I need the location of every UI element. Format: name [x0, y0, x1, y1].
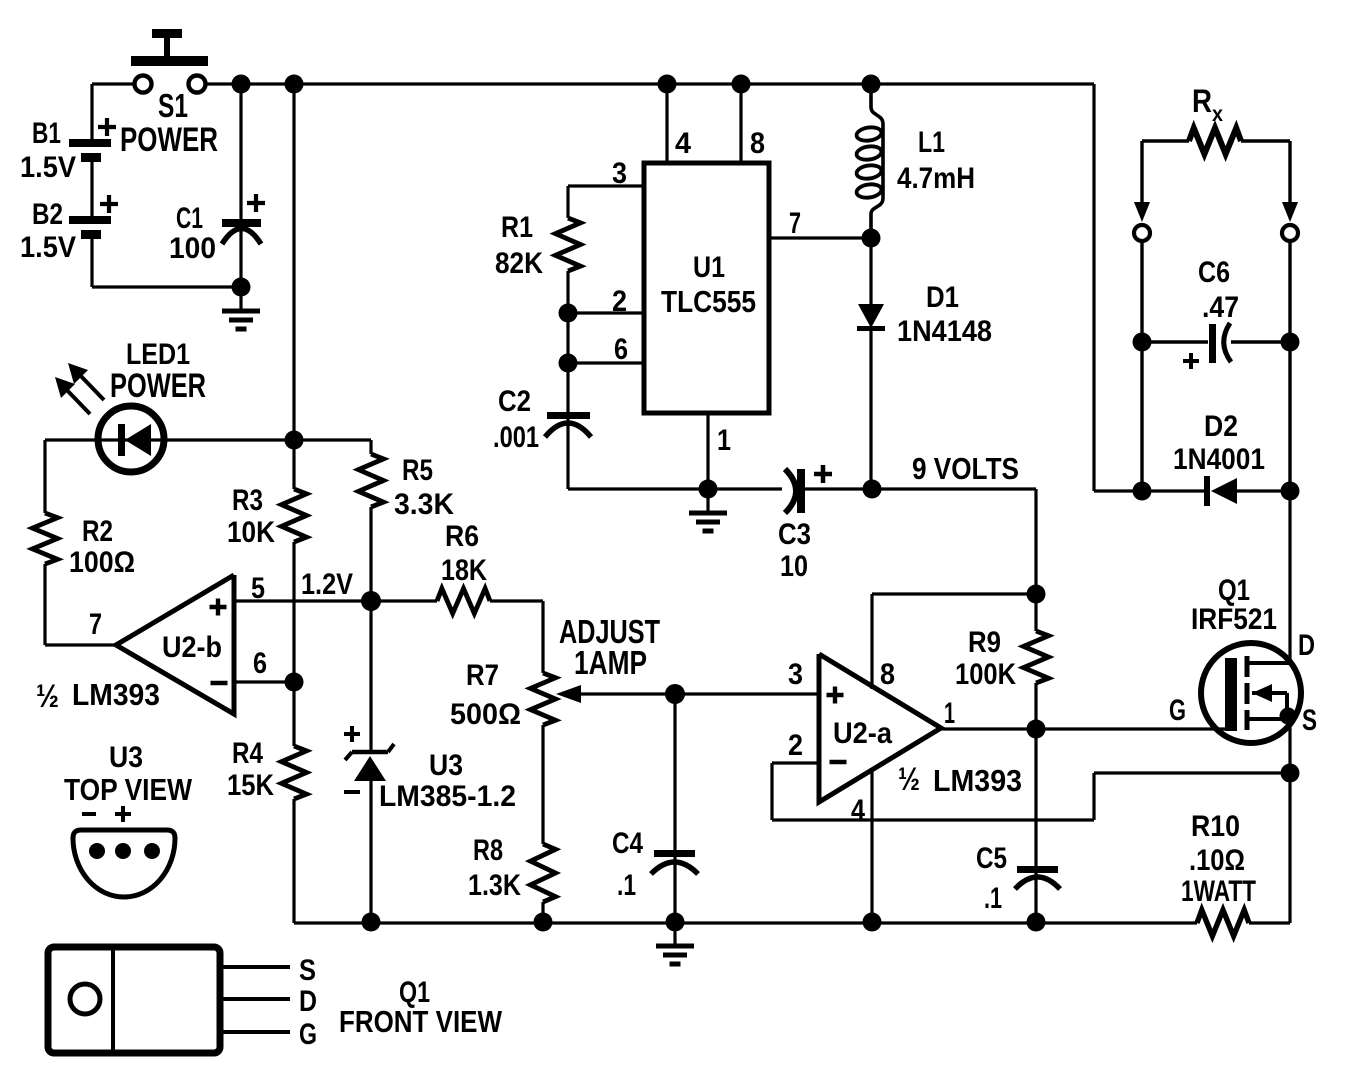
label .10ohm [1189, 844, 1245, 877]
wire pin6 node to U1 pin6 [568, 361, 644, 364]
wire R6 to R7 top corner [490, 601, 543, 673]
label 10K [227, 516, 275, 549]
wire U2-a pin2 jog to source sense [772, 763, 1290, 820]
op U1 box [644, 163, 769, 413]
svg-text:8: 8 [880, 658, 895, 691]
label U3 (top view) [109, 741, 143, 774]
wire R10 to source sense corner [1249, 773, 1290, 923]
label C6 [1198, 256, 1230, 289]
label D lead [299, 985, 317, 1018]
label .47 [1202, 291, 1239, 324]
label C5 [976, 842, 1007, 875]
label .1 (C5) [984, 882, 1002, 915]
label Q1 (front view) [399, 976, 430, 1009]
svg-text:R6: R6 [445, 520, 479, 553]
svg-text:3.3K: 3.3K [394, 488, 454, 521]
label 9 VOLTS [912, 451, 1019, 486]
wire U1 pin8 to rail [739, 84, 742, 165]
capacitor C6 [1142, 323, 1290, 369]
label ADJUST [559, 613, 660, 650]
svg-text:7: 7 [789, 207, 801, 240]
diode D2 [1142, 476, 1290, 506]
junction zener ground [362, 913, 381, 932]
terminal circle right probe [1282, 225, 1298, 241]
resistor R2 with corner [33, 440, 118, 645]
junction L1 top on rail [862, 75, 881, 94]
junction D2 left node [1133, 482, 1152, 501]
pin label 1 (U1) [717, 424, 731, 457]
ic U3 package top view [73, 830, 175, 897]
svg-text:10K: 10K [227, 516, 275, 549]
resistor R4 [282, 746, 307, 799]
wire pin6 node down to C2 and ground run [566, 363, 569, 489]
wire R3 top stub [292, 440, 295, 489]
junction rail/vertical [285, 75, 304, 94]
label .001 [493, 421, 539, 454]
svg-text:2: 2 [788, 729, 803, 762]
resistor R10 [1197, 910, 1249, 936]
svg-text:D1: D1 [926, 281, 959, 314]
ground symbol below C1 [222, 287, 260, 329]
wire left probe to C6 node [1140, 241, 1143, 491]
wire R4 bottom to ground rail [292, 799, 295, 923]
terminal circle left probe [1134, 225, 1150, 241]
junction pin8 rail [732, 75, 751, 94]
wire 1.2V node down to zener [369, 601, 372, 752]
wire battery bottom return [92, 237, 241, 287]
wire R7 bottom to R8 [541, 725, 544, 844]
svg-text:1N4001: 1N4001 [1173, 443, 1265, 476]
label POWER (LED1) [110, 367, 206, 405]
svg-text:4.7mH: 4.7mH [897, 162, 975, 195]
svg-text:S: S [299, 954, 316, 987]
label S terminal [1302, 704, 1317, 737]
junction R8 ground [534, 913, 553, 932]
label 4.7mH [897, 162, 975, 195]
wire C1 top to +3V rail [239, 84, 242, 287]
svg-text:R: R [1192, 83, 1212, 119]
svg-text:C6: C6 [1198, 256, 1230, 289]
pin label 1 (U2-a) [944, 697, 955, 730]
svg-text:TOP VIEW: TOP VIEW [64, 772, 193, 807]
svg-text:D2: D2 [1204, 410, 1238, 443]
junction pin7/L1/D1 [862, 229, 881, 248]
label C4 [612, 827, 643, 860]
label IRF521 [1191, 603, 1277, 636]
svg-text:LM393: LM393 [933, 763, 1022, 798]
junction output node [1027, 720, 1046, 739]
label half LM393 (U2-b) [36, 677, 160, 714]
label S lead [299, 954, 316, 987]
wire B1 to B2 [90, 158, 93, 218]
junction C5 ground [1027, 913, 1046, 932]
label R1 [501, 211, 533, 244]
diode D1 [857, 238, 885, 489]
svg-text:100K: 100K [955, 658, 1016, 691]
svg-text:S: S [1302, 704, 1317, 737]
wire U2-b pin5 to 1.2V node [234, 599, 371, 602]
svg-text:7: 7 [89, 608, 102, 641]
svg-text:R2: R2 [82, 515, 113, 548]
wire U1 pin7 to L1 bottom [769, 236, 871, 239]
label 1WATT [1181, 875, 1256, 908]
svg-text:LM393: LM393 [72, 677, 160, 712]
pin label 4 (U2-a) [851, 794, 865, 827]
svg-text:B1: B1 [32, 117, 61, 150]
label L1 [918, 126, 945, 159]
label plus (top view) [115, 806, 131, 822]
label 1N4001 [1173, 443, 1265, 476]
wire top +3V rail (S1 to right corner) [205, 82, 1094, 85]
potentiometer R7 [531, 673, 676, 725]
led light arrows [55, 363, 104, 414]
inductor L1 [856, 92, 883, 231]
wire wiper node down through C4 to rail [673, 694, 676, 923]
label minus (top view) [82, 812, 96, 816]
junction C4 ground [666, 913, 685, 932]
capacitor C3 [785, 465, 832, 513]
label Q1 [1218, 574, 1250, 607]
capacitor C1 [222, 194, 265, 244]
wire R3 bottom to pin6 node [292, 542, 295, 682]
label U2-a [833, 717, 892, 750]
svg-text:C4: C4 [612, 827, 643, 860]
wire pin2 node down to pin6 node [566, 313, 569, 363]
label 1.3K [468, 869, 521, 902]
svg-text:U2-b: U2-b [162, 631, 222, 664]
svg-text:D: D [299, 985, 317, 1018]
capacitor C5 [1015, 866, 1060, 889]
label R5 [402, 454, 433, 487]
pin label 6 (U1) [614, 333, 628, 366]
svg-text:LM385-1.2: LM385-1.2 [379, 780, 516, 813]
pin label 2 [612, 285, 627, 318]
pin label 3 (U2-a) [788, 658, 803, 691]
svg-text:R7: R7 [466, 659, 499, 692]
svg-text:.1: .1 [984, 882, 1002, 915]
wire 9V feed [872, 489, 1036, 594]
junction pin2 node [559, 304, 578, 323]
resistor Rx with leads [1142, 128, 1290, 154]
junction source sense node [1281, 764, 1300, 783]
wire R8 bottom to rail [541, 902, 544, 923]
label C1 [176, 202, 203, 235]
svg-text:18K: 18K [441, 554, 487, 587]
wire R1 bottom to pin2 node [566, 271, 569, 313]
svg-text:.001: .001 [493, 421, 539, 454]
label G terminal [1169, 694, 1186, 727]
wire U2-b pin6 to divider [234, 680, 294, 683]
junction pin4 rail [658, 75, 677, 94]
svg-text:500Ω: 500Ω [450, 698, 521, 731]
label 500ohm [450, 698, 521, 731]
svg-text:8: 8 [750, 127, 765, 160]
label TLC555 [661, 284, 756, 319]
wire right probe down to D2 node [1288, 241, 1291, 491]
wire Rx right lead down with arrow [1282, 141, 1298, 222]
svg-text:1N4148: 1N4148 [897, 315, 992, 348]
wire R9 top stub [1034, 594, 1037, 631]
svg-text:x: x [1212, 103, 1223, 126]
svg-text:1WATT: 1WATT [1181, 875, 1256, 908]
led LED1 [98, 406, 164, 472]
svg-text:R4: R4 [232, 737, 263, 770]
label R6 [445, 520, 479, 553]
svg-text:1: 1 [717, 424, 731, 457]
pin label 4 [675, 127, 691, 160]
svg-text:6: 6 [614, 333, 628, 366]
junction battery return / C1 [232, 278, 251, 297]
svg-text:1.3K: 1.3K [468, 869, 521, 902]
junction pin1 ground node [699, 480, 718, 499]
wire LED row [45, 438, 371, 441]
label R4 [232, 737, 263, 770]
label U2-b [162, 631, 222, 664]
svg-text:G: G [299, 1018, 317, 1051]
wire U2-a output to Q1 gate [941, 727, 1226, 730]
label U1 [693, 251, 725, 284]
label TOP VIEW [64, 772, 193, 807]
label 18K [441, 554, 487, 587]
svg-text:10: 10 [780, 550, 808, 583]
label 1AMP [574, 644, 647, 681]
label LED1 [126, 338, 190, 371]
wire R5 top corner [369, 440, 372, 454]
label LM385-1.2 [379, 780, 516, 813]
label D terminal [1298, 629, 1315, 662]
svg-text:B2: B2 [32, 198, 63, 231]
svg-text:FRONT VIEW: FRONT VIEW [339, 1004, 503, 1039]
pin label 8 (U2-a) [880, 658, 895, 691]
svg-text:G: G [1169, 694, 1186, 727]
label B1 [32, 117, 61, 150]
junction LED row / R3 top [285, 431, 304, 450]
resistor R5 [359, 454, 384, 507]
label R2 [82, 515, 113, 548]
label half LM393 (U2-a) [898, 761, 1022, 798]
pin label 2 (U2-a) [788, 729, 803, 762]
svg-text:1.5V: 1.5V [20, 231, 76, 264]
label 15K [227, 769, 274, 802]
label POWER (S1) [120, 121, 218, 159]
transistor Q1 IRF521 [1201, 643, 1301, 743]
wire C3 to 9V junction [805, 487, 872, 490]
label R7 [466, 659, 499, 692]
svg-text:POWER: POWER [110, 367, 206, 405]
ground symbol below U1 pin1 [689, 489, 727, 531]
pin label 7 (U2-b) [89, 608, 102, 641]
label R3 [232, 484, 263, 517]
label R8 [473, 834, 503, 867]
svg-text:IRF521: IRF521 [1191, 603, 1277, 636]
op-amp U2-a [819, 654, 941, 802]
resistor R1 [556, 218, 581, 271]
svg-text:.47: .47 [1202, 291, 1239, 324]
svg-text:1: 1 [944, 697, 955, 730]
svg-text:R10: R10 [1191, 810, 1240, 843]
svg-text:S1: S1 [158, 87, 188, 124]
junction C1 top on rail [232, 75, 251, 94]
svg-text:R1: R1 [501, 211, 533, 244]
svg-text:U3: U3 [429, 749, 463, 782]
svg-text:R8: R8 [473, 834, 503, 867]
junction R9 top node [1027, 585, 1046, 604]
label R9 [968, 626, 1001, 659]
pin label 6 (U2-b) [253, 647, 267, 680]
svg-text:POWER: POWER [120, 121, 218, 159]
battery B2 [69, 195, 118, 239]
junction C6 left node [1133, 333, 1152, 352]
label 1.5V (B1) [20, 151, 76, 184]
svg-text:4: 4 [851, 794, 865, 827]
label R (Rx) [1192, 83, 1212, 119]
label B2 [32, 198, 63, 231]
junction U2-b pin6 node [285, 673, 304, 692]
svg-text:½: ½ [36, 678, 59, 714]
label D1 [926, 281, 959, 314]
svg-text:U2-a: U2-a [833, 717, 892, 750]
wire C2 ground run [568, 487, 708, 490]
label C3 [778, 518, 811, 551]
svg-text:C2: C2 [498, 385, 531, 418]
label .1 (C4) [617, 869, 636, 902]
wire Rx left lead down with arrow [1134, 141, 1150, 222]
junction wiper node [665, 684, 685, 704]
resistor R8 [531, 844, 556, 902]
pin label 8 [750, 127, 765, 160]
wire pin6 node down to R4 [292, 682, 295, 746]
svg-text:L1: L1 [918, 126, 945, 159]
wire U1 pin3 to R1 top [568, 186, 644, 218]
wire pin8 run to R9 top [872, 592, 1036, 595]
capacitor C2 [545, 412, 591, 437]
svg-text:D: D [1298, 629, 1315, 662]
label 1N4148 [897, 315, 992, 348]
wire 1.2V node to R6 [371, 599, 437, 602]
svg-text:U3: U3 [109, 741, 143, 774]
pin label 7 (U1) [789, 207, 801, 240]
svg-text:C3: C3 [778, 518, 811, 551]
svg-text:.10Ω: .10Ω [1189, 844, 1245, 877]
op-amp U2-b [116, 575, 234, 714]
svg-text:1.5V: 1.5V [20, 151, 76, 184]
label 1.2V [301, 568, 353, 601]
junction pin6 node [559, 354, 578, 373]
label 100ohm [69, 546, 135, 579]
wire D2 node down to Q1 drain [1288, 491, 1291, 662]
transistor Q1 package front view [48, 947, 290, 1053]
svg-text:100Ω: 100Ω [69, 546, 135, 579]
svg-text:9 VOLTS: 9 VOLTS [912, 451, 1019, 486]
svg-text:15K: 15K [227, 769, 274, 802]
label FRONT VIEW [339, 1004, 503, 1039]
label 1.5V (B2) [20, 231, 76, 264]
capacitor C4 [651, 850, 698, 874]
label R10 [1191, 810, 1240, 843]
wire U2-a pin8 up [870, 594, 873, 689]
wire U1 pin4 to rail [665, 84, 668, 165]
switch S1 pushbutton [131, 29, 208, 93]
svg-text:6: 6 [253, 647, 267, 680]
svg-text:1AMP: 1AMP [574, 644, 647, 681]
wire wiper node to U2-a pin3 [675, 692, 819, 695]
wire +3V rail down to LED row [292, 84, 295, 440]
wire R5 bottom to 1.2V node [369, 507, 372, 601]
ground symbol below rail at C4 [656, 922, 694, 964]
label 3.3K [394, 488, 454, 521]
wire Q1 source down [1288, 716, 1291, 773]
resistor R6 [437, 589, 490, 614]
battery B1 [69, 118, 116, 162]
svg-text:3: 3 [788, 658, 803, 691]
label 82K [495, 247, 543, 280]
label C2 [498, 385, 531, 418]
junction 1.2V node [361, 591, 381, 611]
resistor R9 [1024, 631, 1049, 683]
pin label 5 (U2-b) [251, 572, 265, 605]
wire output node down through C5 to rail [1034, 729, 1037, 923]
wire ground rail [294, 921, 1197, 924]
svg-text:TLC555: TLC555 [661, 284, 756, 319]
label 10 (C3) [780, 550, 808, 583]
svg-text:R9: R9 [968, 626, 1001, 659]
svg-text:U1: U1 [693, 251, 725, 284]
junction C6 right node [1281, 333, 1300, 352]
wire rail right corner down [1094, 84, 1142, 491]
label U3 (zener) [429, 749, 463, 782]
junction pin4 ground [863, 913, 882, 932]
svg-text:R5: R5 [402, 454, 433, 487]
junction 9V node at D1 [863, 480, 882, 499]
wire U1 pin1 down [706, 413, 709, 489]
label 100K [955, 658, 1016, 691]
svg-text:C1: C1 [176, 202, 203, 235]
svg-text:C5: C5 [976, 842, 1007, 875]
svg-text:.1: .1 [617, 869, 636, 902]
wire R9 bottom to output node [1034, 683, 1037, 729]
svg-text:100: 100 [169, 232, 216, 265]
label x subscript (Rx) [1212, 103, 1223, 126]
resistor R3 [282, 489, 307, 542]
label G lead [299, 1018, 317, 1051]
wire pin2 node to U1 pin2 [568, 311, 644, 314]
label 100 (C1) [169, 232, 216, 265]
label S1 [158, 87, 188, 124]
pin label 3 [612, 157, 627, 190]
svg-text:4: 4 [675, 127, 691, 160]
svg-text:½: ½ [898, 761, 920, 797]
zener U3 LM385 [344, 726, 394, 923]
svg-text:1.2V: 1.2V [301, 568, 353, 601]
wire U2-a pin4 to ground rail [870, 771, 873, 923]
wire S1 left contact to battery top [92, 84, 136, 140]
svg-text:82K: 82K [495, 247, 543, 280]
label D2 [1204, 410, 1238, 443]
wire ground node to C3 [708, 487, 782, 490]
junction D2 right node [1281, 482, 1300, 501]
svg-text:R3: R3 [232, 484, 263, 517]
